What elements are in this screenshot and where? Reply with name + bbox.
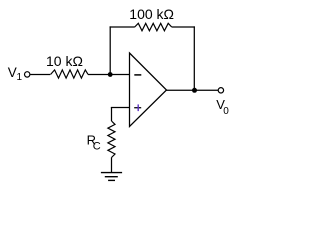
wire (110, 26, 135, 28)
wire (167, 89, 195, 91)
svg-text:10 kΩ: 10 kΩ (46, 53, 83, 69)
label V1 (8, 65, 23, 83)
svg-text:0: 0 (223, 106, 229, 117)
svg-text:100 kΩ: 100 kΩ (129, 6, 174, 22)
op-amp inverting pin minus sign (134, 74, 141, 76)
node inverting junction (108, 72, 113, 77)
wire (195, 89, 219, 91)
wire (172, 26, 195, 28)
wire (193, 26, 195, 90)
terminal V0 (218, 88, 223, 93)
op-amp U1 (130, 53, 167, 127)
label RC (87, 133, 101, 153)
resistor RC (108, 121, 115, 158)
wire (88, 74, 110, 76)
wire (110, 74, 130, 76)
wire (111, 107, 130, 109)
terminal V1 (25, 72, 30, 77)
ground (101, 173, 122, 181)
resistor R2 100 kΩ (135, 23, 172, 31)
resistor R1 10 kΩ (51, 70, 89, 78)
svg-text:1: 1 (17, 72, 23, 83)
label V0 (216, 97, 229, 117)
wire (30, 74, 50, 76)
svg-text:C: C (93, 141, 101, 153)
wire (111, 158, 113, 173)
wire (109, 26, 111, 75)
wire (111, 107, 113, 121)
op-amp non-inverting pin plus sign (134, 104, 141, 111)
node output junction (192, 88, 197, 93)
svg-text:V: V (8, 65, 17, 80)
